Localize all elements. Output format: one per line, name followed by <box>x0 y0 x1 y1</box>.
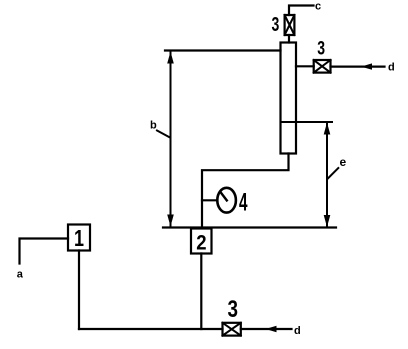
arrowhead (bottom d, pointing left) <box>266 326 277 332</box>
leader line e <box>328 168 338 178</box>
wire: valve 3 to column top <box>288 35 290 43</box>
bottom reference line <box>163 226 336 228</box>
arrowhead b top <box>167 52 174 64</box>
svg-text:b: b <box>150 119 157 131</box>
arrowhead e bottom <box>324 215 331 227</box>
svg-text:d: d <box>388 62 395 74</box>
wire: bottom pipe <box>79 328 223 330</box>
dimension line e <box>326 123 328 227</box>
top reference line <box>165 49 281 51</box>
svg-text:a: a <box>17 269 24 281</box>
wire: box 1 to a inlet <box>20 239 69 264</box>
wire: top outlet from valve 3 to c <box>289 6 314 16</box>
wire: box 2 down to bottom pipe <box>200 254 202 330</box>
wire: box 1 down to bottom pipe <box>78 251 80 330</box>
leader line b <box>157 131 170 138</box>
wire: d inlet line (bottom) <box>241 328 292 330</box>
valve 3 (bottom, horizontal) <box>223 323 241 336</box>
wire: column bottom elbow to box 2 <box>202 154 289 229</box>
wire: column to right valve 3 <box>296 65 314 67</box>
wire: gauge stub <box>202 199 217 201</box>
svg-text:d: d <box>294 325 301 337</box>
svg-text:4: 4 <box>239 189 248 217</box>
column (saturator vessel) <box>281 43 297 154</box>
svg-text:e: e <box>340 155 347 169</box>
svg-text:3: 3 <box>228 296 239 323</box>
arrowhead (right d, pointing left) <box>361 63 372 69</box>
svg-text:2: 2 <box>196 231 206 254</box>
arrowhead e top <box>324 123 331 135</box>
pressure gauge 4 <box>217 188 236 213</box>
valve 3 (top, vertical) <box>285 15 295 35</box>
svg-text:3: 3 <box>272 14 280 36</box>
arrowhead b bottom <box>167 215 174 227</box>
device box 1 <box>68 225 90 252</box>
svg-text:c: c <box>315 1 321 13</box>
svg-text:1: 1 <box>74 225 84 251</box>
device box 2 <box>191 229 212 255</box>
svg-text:3: 3 <box>317 39 325 60</box>
wire: d inlet line (right) <box>331 65 385 67</box>
valve 3 (right, horizontal) <box>314 60 331 73</box>
liquid level line <box>281 121 333 123</box>
dimension line b <box>170 52 172 226</box>
